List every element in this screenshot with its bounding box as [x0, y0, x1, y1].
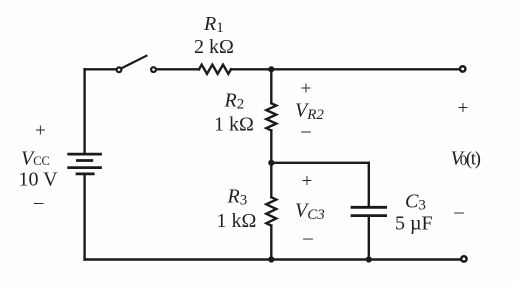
- svg-text:–: –: [453, 202, 464, 223]
- capacitor C3: [352, 207, 386, 215]
- svg-text:VR2: VR2: [295, 100, 324, 124]
- wire R2 branch top: [270, 69, 272, 103]
- svg-text:–: –: [33, 192, 44, 213]
- svg-text:+: +: [301, 79, 312, 100]
- wire left vertical (source bottom): [83, 174, 85, 260]
- svg-text:R3: R3: [227, 186, 248, 209]
- wire top-left segment: [85, 68, 116, 70]
- svg-text:+: +: [35, 121, 46, 142]
- wire node to capacitor branch: [271, 162, 369, 164]
- wire R1 to top-right terminal: [231, 68, 459, 70]
- svg-text:–: –: [300, 121, 311, 142]
- switch S1: [117, 56, 156, 72]
- node junction middle (R2/R3/C3): [268, 160, 274, 166]
- resistor R1: [199, 65, 231, 74]
- svg-text:–: –: [302, 228, 313, 249]
- terminal bottom-right: [461, 256, 466, 261]
- battery VCC: [69, 154, 101, 174]
- wire R3 to bottom: [270, 226, 272, 260]
- wire bottom: [85, 258, 460, 260]
- terminal top-right: [460, 66, 465, 71]
- svg-text:5 µF: 5 µF: [395, 213, 433, 235]
- svg-text:C3: C3: [405, 191, 426, 214]
- svg-text:2 kΩ: 2 kΩ: [194, 36, 234, 58]
- svg-text:+: +: [458, 98, 469, 119]
- wire capacitor bottom lead: [368, 217, 370, 260]
- node junction bottom C3: [366, 256, 372, 262]
- wire left vertical (source top): [83, 69, 85, 154]
- resistor R3: [266, 197, 276, 225]
- wire capacitor top lead: [368, 163, 370, 206]
- wire node to R3: [270, 163, 272, 197]
- svg-text:R2: R2: [224, 90, 245, 113]
- svg-text:1 kΩ: 1 kΩ: [214, 114, 254, 136]
- svg-text:VC3: VC3: [295, 200, 325, 224]
- svg-text:(t): (t): [466, 149, 481, 170]
- node junction bottom R3: [268, 256, 274, 262]
- svg-text:1 kΩ: 1 kΩ: [217, 210, 257, 232]
- wire R2 to node: [270, 130, 272, 162]
- resistor R2: [266, 103, 276, 130]
- svg-text:R1: R1: [203, 13, 224, 36]
- svg-text:+: +: [302, 171, 313, 192]
- svg-text:10 V: 10 V: [19, 169, 59, 191]
- svg-text:VCC: VCC: [21, 148, 50, 170]
- node junction top (R1/R2): [268, 66, 274, 72]
- wire switch to R1: [157, 68, 200, 70]
